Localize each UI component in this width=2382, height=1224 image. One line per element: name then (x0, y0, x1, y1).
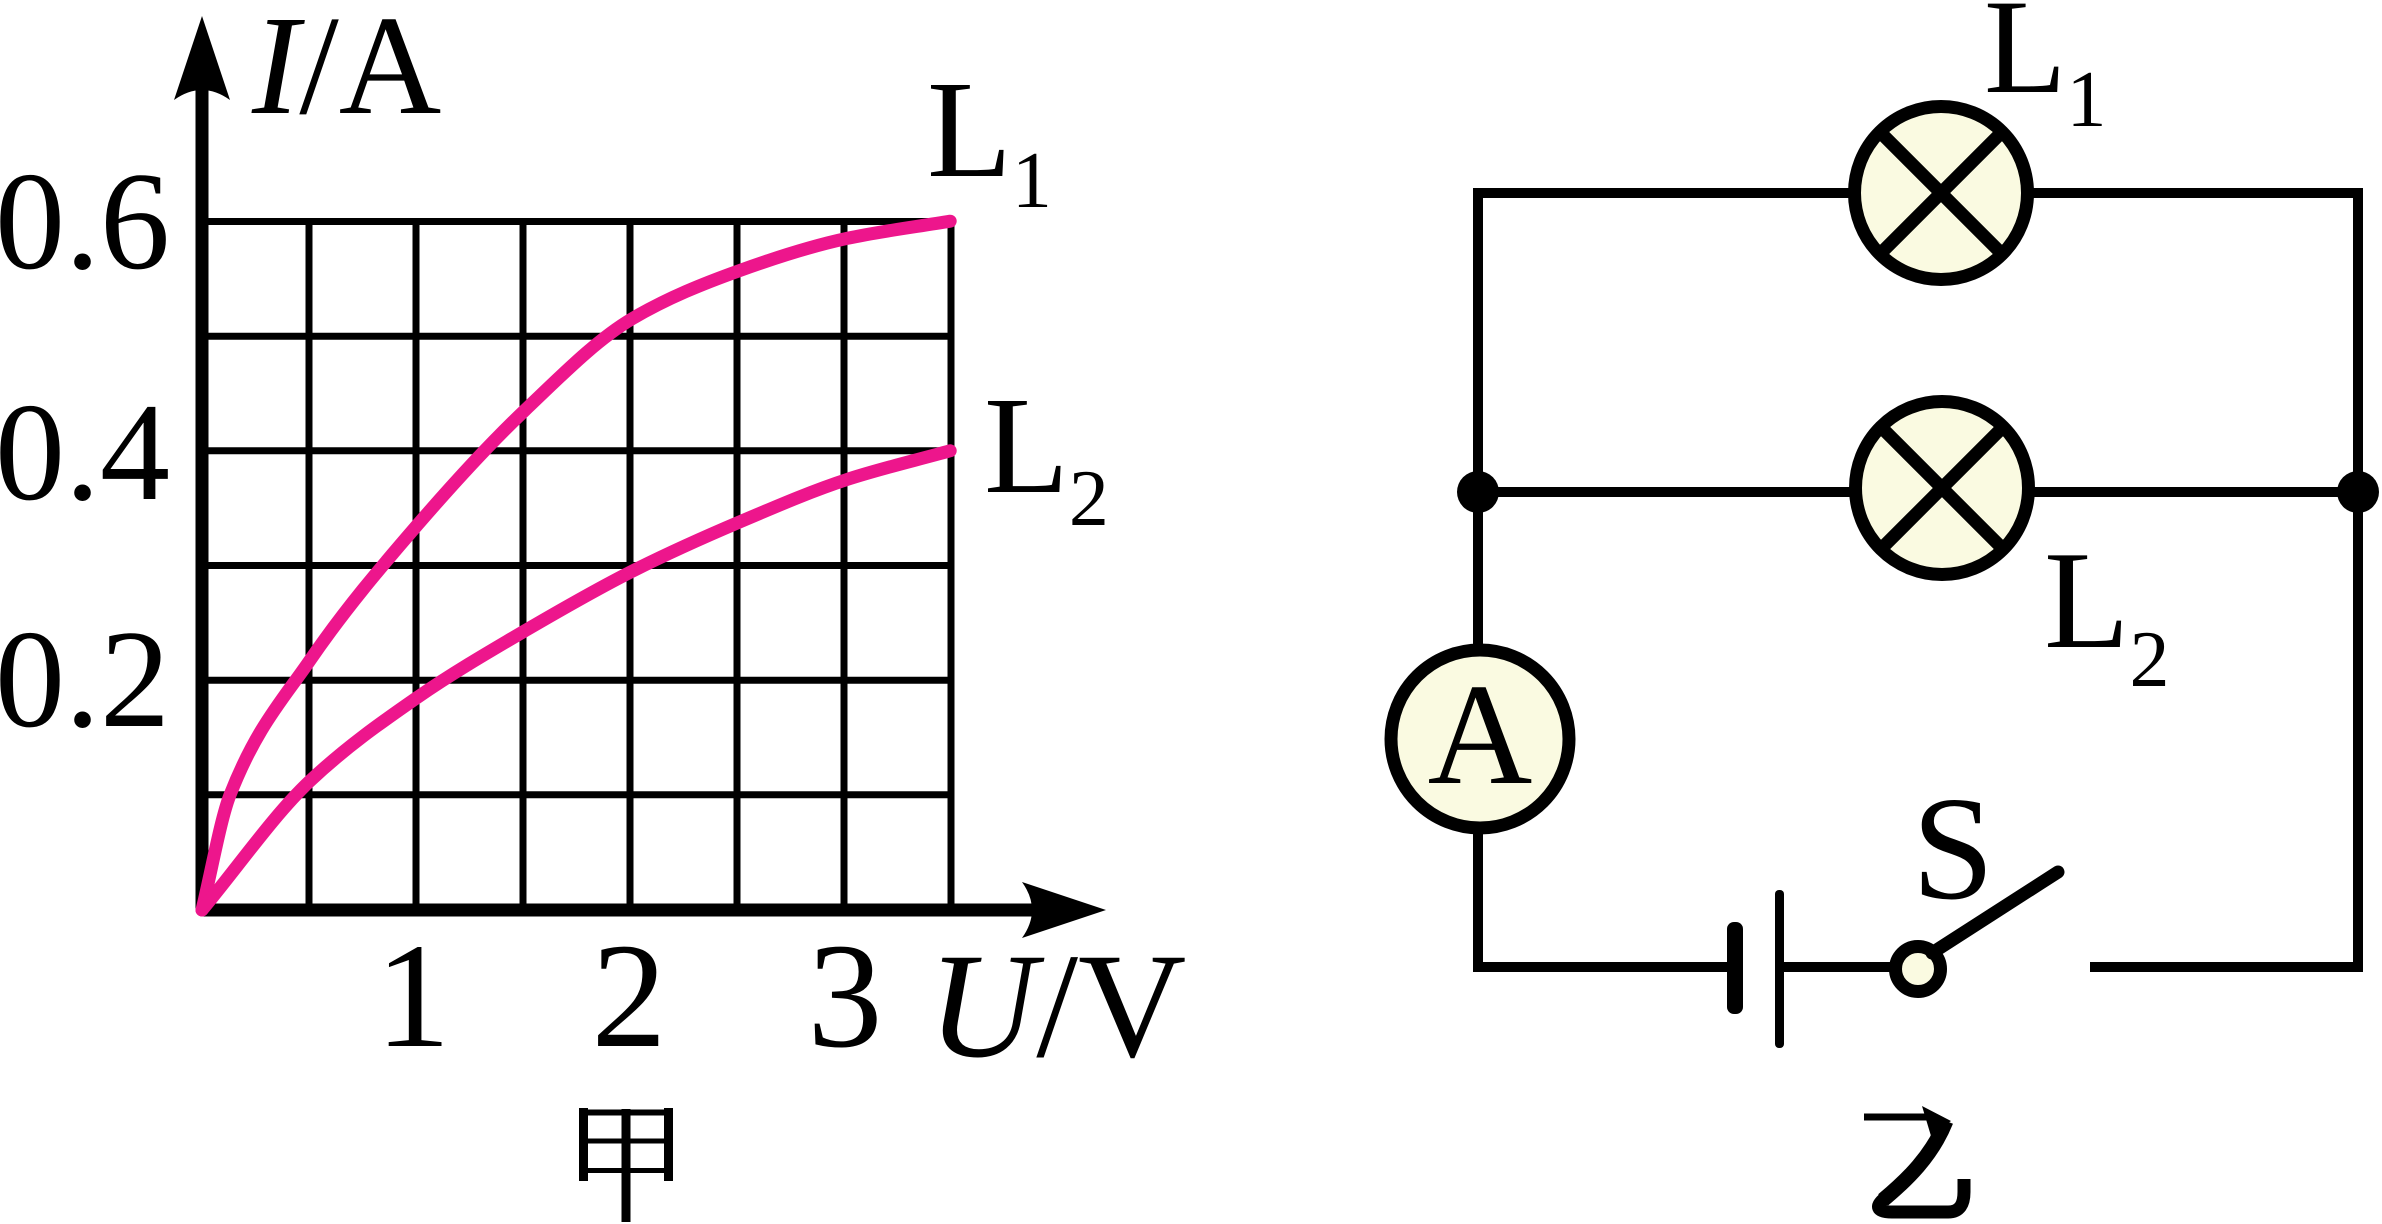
svg-text:L1: L1 (1984, 0, 2106, 144)
switch S pivot (1896, 947, 1941, 992)
svg-text:L1: L1 (927, 53, 1052, 225)
curve L1 (202, 221, 950, 910)
svg-text:3: 3 (808, 913, 883, 1079)
svg-text:S: S (1912, 767, 1994, 931)
wire right (2353, 188, 2363, 972)
svg-text:I/A: I/A (251, 0, 441, 144)
svg-text:L2: L2 (984, 369, 1109, 543)
svg-text:1: 1 (376, 913, 451, 1079)
caption 乙 (1864, 1106, 1964, 1212)
x-axis (202, 882, 1106, 938)
wire middle (1478, 487, 2360, 497)
svg-text:2: 2 (592, 913, 667, 1079)
junction node right (2337, 471, 2379, 513)
svg-text:0.4: 0.4 (0, 375, 170, 530)
wire left (1473, 188, 1483, 972)
svg-text:U/V: U/V (928, 923, 1186, 1089)
ammeter A (1391, 650, 1569, 828)
curve L2 (202, 451, 950, 910)
battery (1727, 890, 1784, 1048)
wire battery-to-switch (1784, 962, 1896, 972)
wire bottom-left (1478, 962, 1728, 972)
svg-text:0.6: 0.6 (0, 144, 170, 299)
grid (202, 221, 951, 910)
switch S blade (1932, 872, 2058, 953)
svg-text:L2: L2 (2044, 523, 2170, 704)
svg-text:A: A (1428, 655, 1533, 815)
caption 甲 (580, 1108, 672, 1222)
wire top (1473, 188, 2363, 198)
junction node left (1457, 471, 1499, 513)
lamp L2 (1856, 402, 2029, 575)
wire bottom-right (2090, 962, 2363, 972)
svg-text:0.2: 0.2 (0, 602, 170, 757)
lamp L1 (1855, 107, 2028, 280)
y-axis (174, 16, 230, 910)
